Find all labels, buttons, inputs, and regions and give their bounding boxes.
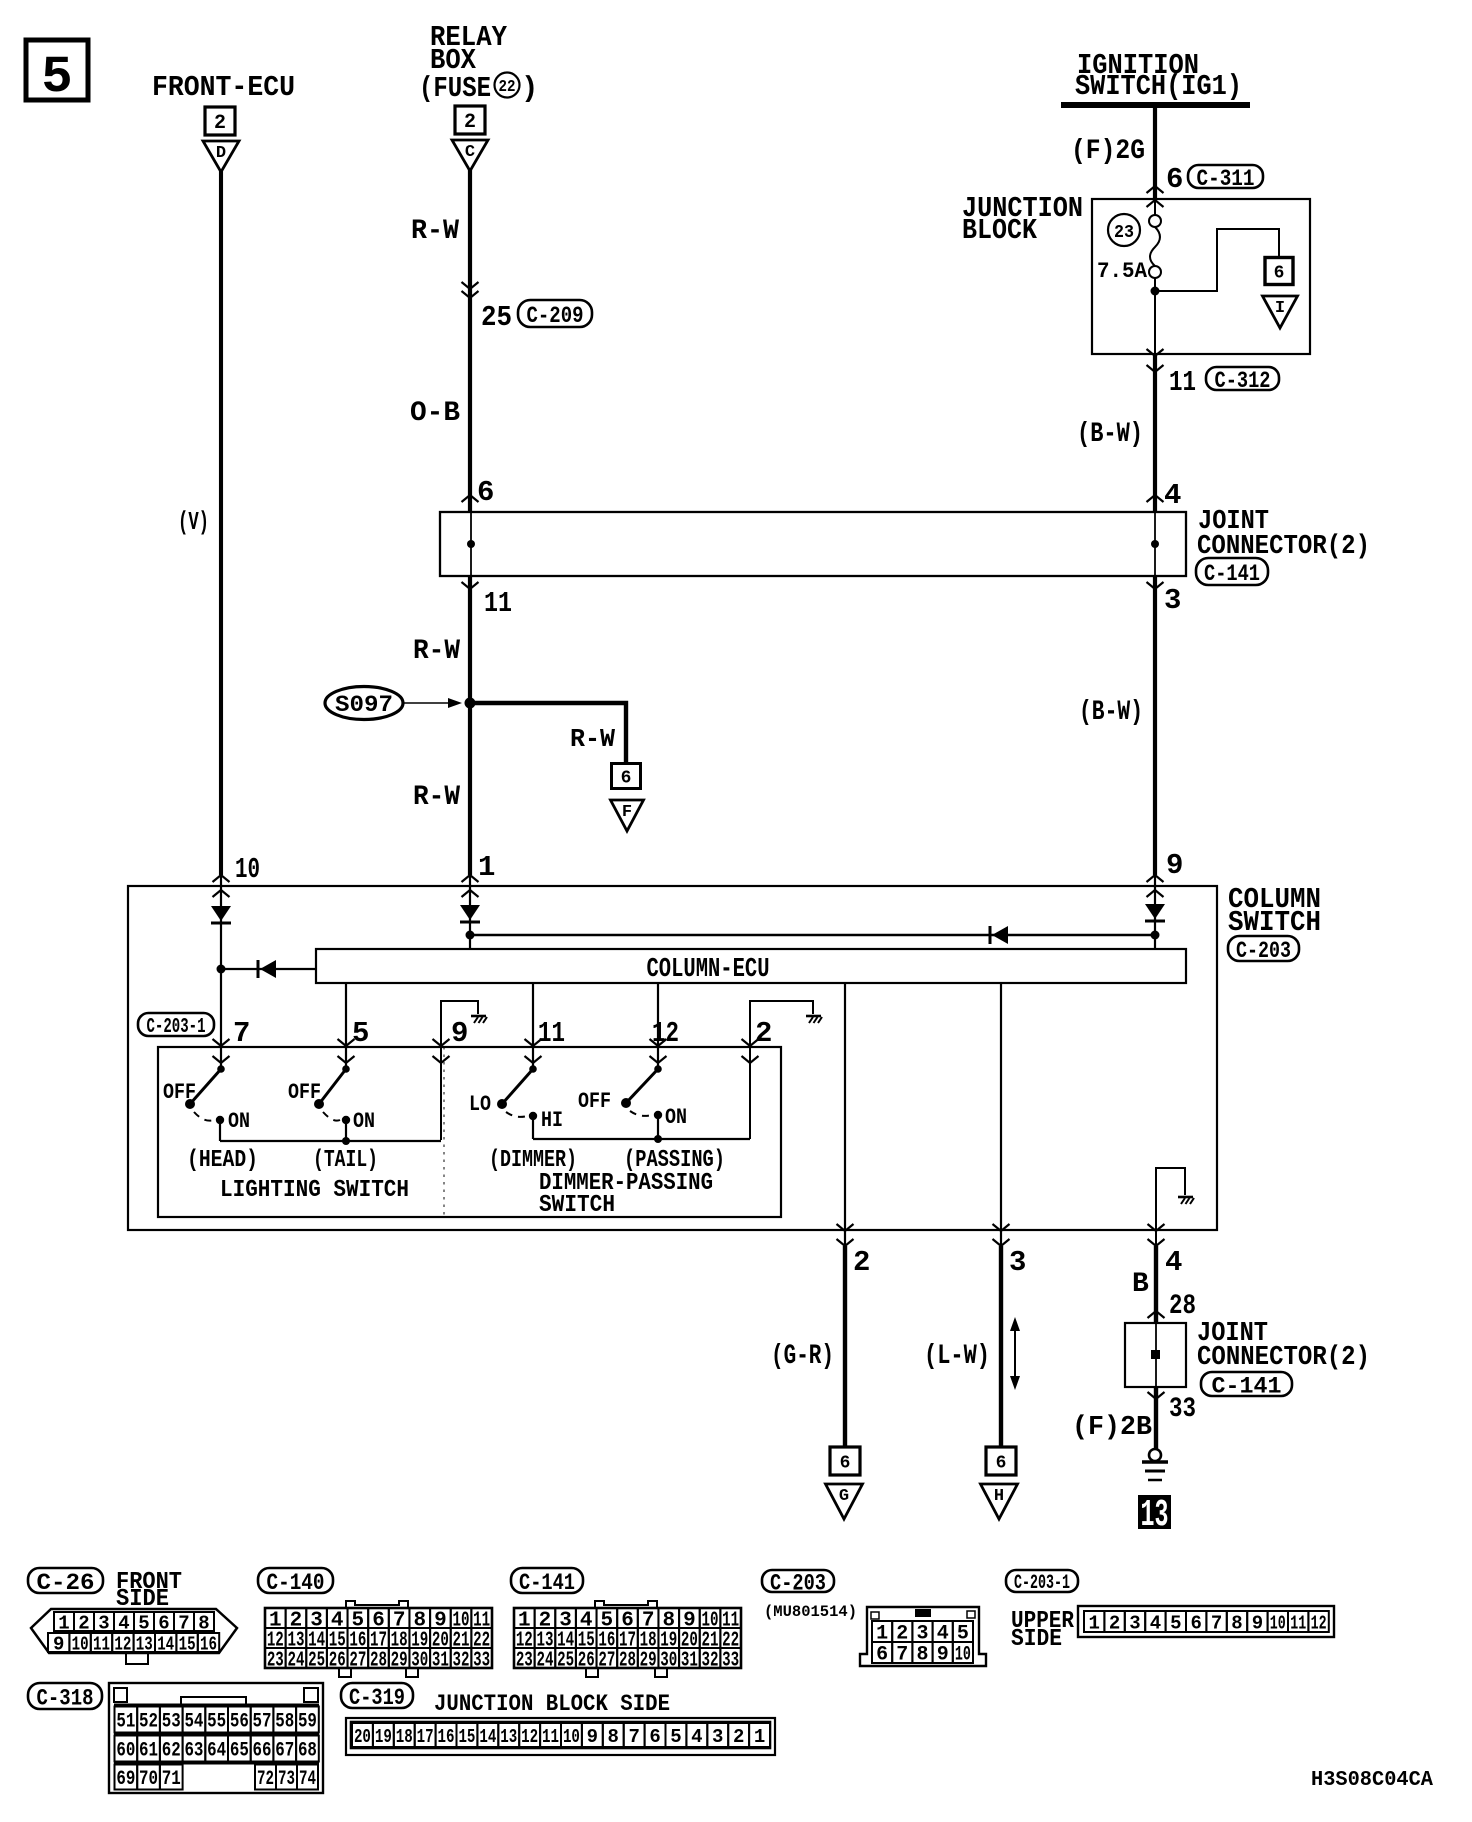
svg-text:C-141: C-141 xyxy=(519,1570,575,1596)
destination triangle D xyxy=(203,141,239,172)
svg-text:OFF: OFF xyxy=(288,1080,321,1105)
destination triangle H xyxy=(981,1484,1018,1519)
svg-text:11: 11 xyxy=(538,1017,565,1050)
svg-text:51: 51 xyxy=(116,1711,135,1734)
svg-text:6: 6 xyxy=(158,1612,169,1634)
connector label C-319 xyxy=(341,1683,413,1708)
svg-text:8: 8 xyxy=(198,1612,209,1634)
crossing arrows inner switch box xyxy=(213,1039,230,1046)
connector label C-141 lower xyxy=(1201,1372,1292,1396)
svg-text:8: 8 xyxy=(1231,1612,1242,1634)
wire branch R-W to triangle F xyxy=(470,703,626,764)
connector crossing arrows pin 9 xyxy=(1147,875,1164,882)
svg-text:H: H xyxy=(994,1487,1004,1506)
svg-text:18: 18 xyxy=(396,1726,413,1748)
svg-text:69: 69 xyxy=(116,1768,135,1791)
svg-text:O-B: O-B xyxy=(410,398,460,429)
connector crossing arrows C-311 xyxy=(1147,186,1164,193)
svg-text:2: 2 xyxy=(755,1017,772,1050)
svg-text:68: 68 xyxy=(298,1740,317,1763)
wire B output 4 xyxy=(1154,1246,1158,1323)
svg-text:F: F xyxy=(622,803,632,822)
junction dot right in joint connector xyxy=(1151,540,1159,548)
svg-text:33: 33 xyxy=(1169,1394,1196,1425)
svg-text:8: 8 xyxy=(916,1644,928,1667)
svg-text:10: 10 xyxy=(72,1633,89,1655)
svg-text:25: 25 xyxy=(481,301,512,334)
wire through joint connector right xyxy=(1154,512,1156,576)
svg-text:8: 8 xyxy=(608,1726,619,1748)
connector C-203 pinout xyxy=(860,1607,986,1666)
svg-text:I: I xyxy=(1275,299,1285,318)
connector C-140 pinout xyxy=(265,1608,492,1668)
svg-text:(TAIL): (TAIL) xyxy=(313,1147,378,1174)
destination triangle C xyxy=(452,140,488,171)
svg-text:10: 10 xyxy=(563,1726,580,1748)
joint connector (2) C-141 box xyxy=(440,512,1186,576)
svg-text:2: 2 xyxy=(853,1246,870,1279)
svg-text:2: 2 xyxy=(733,1726,744,1748)
connector C-26 pinout xyxy=(31,1609,237,1653)
connector C-209 crossing arrows xyxy=(462,282,479,289)
wire (L-W) output 3 xyxy=(999,1246,1003,1447)
svg-text:10: 10 xyxy=(1270,1612,1286,1634)
wire ECU pin 11 xyxy=(532,983,534,1069)
svg-text:6: 6 xyxy=(876,1644,888,1667)
COLUMN-ECU box xyxy=(316,949,1186,983)
svg-text:11: 11 xyxy=(1290,1612,1306,1634)
svg-text:C-141: C-141 xyxy=(1212,1373,1282,1399)
svg-text:62: 62 xyxy=(162,1740,181,1763)
svg-text:CONNECTOR(2): CONNECTOR(2) xyxy=(1197,1343,1370,1373)
svg-text:C-203: C-203 xyxy=(770,1570,826,1596)
svg-text:H3S08C04CA: H3S08C04CA xyxy=(1311,1769,1433,1792)
switch contact (top) at 221 xyxy=(217,1065,225,1073)
svg-text:16: 16 xyxy=(200,1633,217,1655)
svg-text:74: 74 xyxy=(299,1768,316,1791)
svg-text:3: 3 xyxy=(712,1726,723,1748)
svg-text:C-203: C-203 xyxy=(1236,938,1291,964)
svg-text:OFF: OFF xyxy=(163,1080,196,1105)
svg-text:67: 67 xyxy=(275,1740,294,1763)
junction node left xyxy=(217,965,226,974)
svg-text:C-209: C-209 xyxy=(527,303,584,329)
junction node S097 on wire C xyxy=(465,698,476,709)
svg-text:24: 24 xyxy=(536,1650,553,1673)
connector box 6 (branch I) xyxy=(1265,258,1293,285)
svg-text:5: 5 xyxy=(138,1612,149,1634)
diode D5 (pin 9) xyxy=(1145,904,1165,919)
svg-text:4: 4 xyxy=(118,1612,129,1634)
svg-text:ON: ON xyxy=(228,1109,250,1134)
earth ground symbol xyxy=(1149,1449,1161,1461)
svg-text:52: 52 xyxy=(139,1711,158,1734)
svg-text:BLOCK: BLOCK xyxy=(962,214,1038,247)
joint connector (2) C-141 lower box xyxy=(1125,1323,1186,1387)
chassis ground (pin 2) xyxy=(806,1015,821,1018)
connector label C-141 xyxy=(1196,558,1268,585)
connector label C-141 bottom xyxy=(511,1568,583,1593)
svg-text:15: 15 xyxy=(179,1633,196,1655)
fuse symbol 7.5A xyxy=(1149,215,1161,227)
svg-text:12: 12 xyxy=(521,1726,538,1748)
svg-text:C-203-1: C-203-1 xyxy=(147,1016,206,1039)
wire lighting switch common bus xyxy=(220,1140,441,1142)
wire ECU pin 5 xyxy=(345,983,347,1069)
svg-text:JUNCTION BLOCK SIDE: JUNCTION BLOCK SIDE xyxy=(434,1691,670,1717)
connector label C-312 xyxy=(1206,367,1279,390)
svg-text:23: 23 xyxy=(1114,223,1134,243)
wire pin 9 internal with diode xyxy=(1154,875,1156,949)
junction dot left in joint connector xyxy=(467,540,475,548)
ground reference box 13 xyxy=(1138,1495,1171,1529)
svg-text:3: 3 xyxy=(1164,584,1181,617)
svg-text:4: 4 xyxy=(1164,479,1181,512)
connector label C-203 xyxy=(1228,936,1299,961)
wire ECU pin 3 output xyxy=(1000,983,1002,1246)
destination triangle G xyxy=(826,1484,863,1519)
arrow from S097 to junction xyxy=(404,702,452,704)
svg-text:3: 3 xyxy=(1129,1612,1140,1634)
svg-text:(L-W): (L-W) xyxy=(924,1341,990,1372)
svg-text:(B-W): (B-W) xyxy=(1077,419,1143,450)
svg-text:G: G xyxy=(839,1487,849,1506)
svg-text:2: 2 xyxy=(214,112,226,135)
svg-text:5: 5 xyxy=(1170,1612,1181,1634)
svg-text:65: 65 xyxy=(230,1740,249,1763)
switch throw dashed xyxy=(630,1111,652,1116)
connector C-203-1 pinout xyxy=(1078,1606,1334,1637)
svg-text:9: 9 xyxy=(451,1017,468,1050)
svg-text:9: 9 xyxy=(937,1644,949,1667)
connector box 6 (H) xyxy=(986,1447,1016,1475)
svg-text:31: 31 xyxy=(681,1650,698,1673)
svg-text:C-312: C-312 xyxy=(1215,368,1271,394)
svg-text:4: 4 xyxy=(691,1726,702,1748)
svg-text:66: 66 xyxy=(253,1740,272,1763)
connector box 2 (FRONT-ECU) xyxy=(205,107,235,135)
svg-text:28: 28 xyxy=(370,1650,387,1673)
svg-text:14: 14 xyxy=(157,1633,174,1655)
svg-text:71: 71 xyxy=(162,1768,181,1791)
svg-text:6: 6 xyxy=(1166,163,1183,196)
svg-text:C-26: C-26 xyxy=(37,1570,95,1596)
svg-text:S097: S097 xyxy=(335,692,393,718)
svg-text:(F)2G: (F)2G xyxy=(1071,136,1145,167)
junction node PASSING-ON xyxy=(654,1135,662,1143)
svg-text:C-140: C-140 xyxy=(267,1570,325,1596)
svg-text:23: 23 xyxy=(516,1650,533,1673)
svg-text:57: 57 xyxy=(253,1711,272,1734)
svg-text:(HEAD): (HEAD) xyxy=(187,1147,258,1174)
svg-text:FRONT-ECU: FRONT-ECU xyxy=(152,71,295,104)
svg-text:25: 25 xyxy=(557,1650,574,1673)
svg-text:13: 13 xyxy=(1141,1494,1169,1537)
svg-text:55: 55 xyxy=(207,1711,226,1734)
svg-text:61: 61 xyxy=(139,1740,158,1763)
svg-text:54: 54 xyxy=(184,1711,203,1734)
connector box 6 (G) xyxy=(830,1447,860,1475)
connector C-141 pinout xyxy=(514,1608,741,1668)
wire to earth ground xyxy=(1154,1387,1158,1449)
svg-text:4: 4 xyxy=(1165,1246,1182,1279)
svg-text:59: 59 xyxy=(298,1711,317,1734)
svg-text:1: 1 xyxy=(478,851,495,884)
svg-text:23: 23 xyxy=(267,1650,284,1673)
svg-text:B: B xyxy=(1132,1269,1149,1300)
svg-text:6: 6 xyxy=(477,476,494,509)
svg-text:64: 64 xyxy=(207,1740,226,1763)
wire C exit - pin 11 xyxy=(462,582,479,589)
svg-text:C-319: C-319 xyxy=(349,1685,405,1711)
connector label C-318 xyxy=(28,1683,102,1709)
sheet number box 5 xyxy=(26,40,88,100)
switch assembly box xyxy=(158,1047,781,1217)
wire pin 7 to lighting switch xyxy=(220,969,222,1069)
diode D1 (pin 10) xyxy=(211,906,231,921)
svg-text:C-318: C-318 xyxy=(37,1685,94,1711)
wire (G-R) output 2 xyxy=(843,1246,847,1447)
ignition switch bus bar xyxy=(1061,102,1250,108)
svg-text:): ) xyxy=(521,72,538,105)
junction block box xyxy=(1092,199,1310,354)
pin label 33 xyxy=(1148,1392,1165,1399)
svg-text:7: 7 xyxy=(628,1726,639,1748)
svg-text:28: 28 xyxy=(619,1650,636,1673)
svg-text:(FUSE: (FUSE xyxy=(419,72,491,105)
svg-text:20: 20 xyxy=(354,1726,371,1748)
svg-text:7: 7 xyxy=(178,1612,189,1634)
svg-text:11: 11 xyxy=(1169,366,1196,399)
svg-text:SWITCH: SWITCH xyxy=(1228,906,1321,939)
junction node in junction block xyxy=(1151,287,1160,296)
connector box 6 (branch F) xyxy=(612,764,641,789)
svg-text:7: 7 xyxy=(233,1017,250,1050)
chassis ground (pin 4) xyxy=(1178,1196,1193,1199)
svg-text:C: C xyxy=(465,143,475,162)
svg-text:C-203-1: C-203-1 xyxy=(1014,1572,1070,1595)
svg-text:D: D xyxy=(216,144,226,163)
svg-text:COLUMN-ECU: COLUMN-ECU xyxy=(647,955,770,985)
destination triangle F xyxy=(611,800,644,831)
connector crossing arrows pin 1 xyxy=(462,875,479,882)
svg-text:6: 6 xyxy=(649,1726,660,1748)
svg-text:3: 3 xyxy=(1009,1246,1026,1279)
svg-text:1: 1 xyxy=(754,1726,765,1748)
svg-text:R-W: R-W xyxy=(411,216,459,247)
svg-text:R-W: R-W xyxy=(570,724,615,754)
svg-text:73: 73 xyxy=(278,1768,295,1791)
connector label C-209 xyxy=(518,300,592,327)
svg-text:24: 24 xyxy=(287,1650,304,1673)
svg-text:2: 2 xyxy=(464,111,476,134)
svg-text:C-311: C-311 xyxy=(1197,166,1255,192)
svg-text:25: 25 xyxy=(308,1650,325,1673)
svg-text:7: 7 xyxy=(1211,1612,1222,1634)
svg-text:(MU801514): (MU801514) xyxy=(764,1603,857,1621)
svg-text:15: 15 xyxy=(458,1726,475,1748)
svg-text:1: 1 xyxy=(58,1612,69,1634)
connector label C-26 xyxy=(28,1568,103,1593)
svg-text:R-W: R-W xyxy=(413,782,460,813)
connector label C-203-1 bottom xyxy=(1006,1570,1078,1592)
svg-text:19: 19 xyxy=(375,1726,392,1748)
svg-text:ON: ON xyxy=(665,1105,687,1130)
connector label C-140 xyxy=(258,1568,333,1593)
connector label C-311 xyxy=(1188,165,1263,188)
svg-text:SIDE: SIDE xyxy=(1011,1626,1062,1653)
connector label C-203 bottom xyxy=(762,1570,834,1592)
column switch C-203 box xyxy=(128,886,1217,1230)
svg-text:LIGHTING SWITCH: LIGHTING SWITCH xyxy=(220,1177,409,1204)
svg-text:11: 11 xyxy=(484,587,512,620)
wire through joint connector left xyxy=(470,512,472,576)
svg-text:2: 2 xyxy=(78,1612,89,1634)
fuse 23 circled number xyxy=(1108,214,1140,246)
ground bracket pin 2 (C-203-1) xyxy=(750,1001,813,1139)
svg-text:9: 9 xyxy=(53,1633,64,1655)
wire D (V) FRONT-ECU to COLUMN SWITCH pin 10 xyxy=(219,171,223,875)
switch lever xyxy=(190,1069,221,1104)
svg-text:10: 10 xyxy=(235,853,260,886)
diode D3 (pin 1) xyxy=(460,905,480,920)
switch lever xyxy=(502,1069,533,1104)
wire pin 1 internal with diode xyxy=(469,875,471,949)
svg-text:5: 5 xyxy=(352,1017,369,1050)
svg-text:6: 6 xyxy=(840,1453,851,1473)
wire C R-W relay box to joint connector xyxy=(468,169,472,512)
svg-text:27: 27 xyxy=(598,1650,615,1673)
svg-text:HI: HI xyxy=(541,1108,563,1133)
junction dot lower joint connector xyxy=(1151,1350,1160,1359)
destination triangle I xyxy=(1263,296,1298,328)
svg-text:26: 26 xyxy=(329,1650,346,1673)
crossing arrows outputs 2 3 4 xyxy=(837,1224,854,1231)
svg-text:30: 30 xyxy=(660,1650,677,1673)
svg-text:14: 14 xyxy=(479,1726,496,1748)
switch contact (top) at 533 xyxy=(529,1065,537,1073)
svg-text:11: 11 xyxy=(542,1726,559,1748)
svg-text:13: 13 xyxy=(500,1726,517,1748)
svg-text:63: 63 xyxy=(184,1740,203,1763)
svg-text:3: 3 xyxy=(98,1612,109,1634)
svg-text:ON: ON xyxy=(353,1109,375,1134)
svg-text:16: 16 xyxy=(438,1726,455,1748)
svg-text:6: 6 xyxy=(1274,263,1285,283)
separator lighting/dimmer xyxy=(443,1047,445,1217)
connector crossing arrows C-312 xyxy=(1147,349,1164,356)
connector crossing arrows pin 10 xyxy=(213,875,230,882)
junction node right xyxy=(1151,931,1160,940)
svg-text:10: 10 xyxy=(955,1644,971,1667)
svg-text:OFF: OFF xyxy=(578,1089,611,1114)
chassis ground (pin 9) xyxy=(471,1015,486,1018)
ground bracket pin 9 xyxy=(441,1001,478,1140)
wire ECU pin 2 output xyxy=(844,983,846,1246)
svg-text:6: 6 xyxy=(996,1453,1007,1473)
svg-text:12: 12 xyxy=(1311,1612,1327,1634)
svg-text:7: 7 xyxy=(896,1644,908,1667)
svg-text:11: 11 xyxy=(93,1633,110,1655)
svg-text:(G-R): (G-R) xyxy=(771,1341,834,1372)
switch lever xyxy=(626,1069,658,1103)
switch throw dashed xyxy=(323,1112,340,1121)
svg-text:28: 28 xyxy=(1169,1291,1196,1322)
splice S097 xyxy=(325,687,403,720)
svg-text:6: 6 xyxy=(621,768,632,788)
connector C-318 pinout xyxy=(109,1683,323,1793)
svg-text:SWITCH: SWITCH xyxy=(539,1192,615,1219)
svg-text:6: 6 xyxy=(1190,1612,1201,1634)
connector label C-203-1 xyxy=(138,1013,214,1036)
svg-text:31: 31 xyxy=(432,1650,449,1673)
svg-text:5: 5 xyxy=(670,1726,681,1748)
svg-text:70: 70 xyxy=(139,1768,158,1791)
switch contact (top) at 658 xyxy=(654,1065,662,1073)
svg-text:9: 9 xyxy=(587,1726,598,1748)
two-way arrow xyxy=(1014,1326,1016,1381)
junction node TAIL-ON xyxy=(342,1137,350,1145)
svg-text:17: 17 xyxy=(417,1726,434,1748)
svg-text:60: 60 xyxy=(116,1740,135,1763)
svg-text:32: 32 xyxy=(702,1650,719,1673)
wire fuse to junction dot xyxy=(1154,278,1156,354)
wire ECU pin 12 xyxy=(657,983,659,1069)
wire branch to ECU with diode D2 xyxy=(221,968,316,970)
svg-text:33: 33 xyxy=(473,1650,490,1673)
svg-text:R-W: R-W xyxy=(413,636,460,667)
connector C-319 pinout xyxy=(346,1718,775,1755)
cross wire with diode D4 xyxy=(470,934,1155,937)
svg-text:5: 5 xyxy=(41,48,72,107)
wire exit pin 3 xyxy=(1147,582,1164,589)
svg-text:1: 1 xyxy=(1088,1612,1099,1634)
svg-text:7.5A: 7.5A xyxy=(1097,259,1148,284)
svg-text:(B-W): (B-W) xyxy=(1079,697,1143,728)
ground bracket pin 4 xyxy=(1156,1168,1185,1246)
svg-text:32: 32 xyxy=(453,1650,470,1673)
switch contact (top) at 346 xyxy=(342,1065,350,1073)
svg-text:9: 9 xyxy=(1166,849,1183,882)
junction node mid xyxy=(466,931,475,940)
wire dimmer-passing common bus xyxy=(533,1138,750,1140)
svg-text:30: 30 xyxy=(411,1650,428,1673)
svg-text:4: 4 xyxy=(1150,1612,1161,1634)
connector box 2 (RELAY BOX) xyxy=(455,106,485,134)
svg-text:LO: LO xyxy=(469,1092,491,1117)
switch throw dashed xyxy=(194,1112,214,1121)
svg-text:58: 58 xyxy=(275,1711,294,1734)
switch throw dashed xyxy=(506,1112,527,1117)
svg-text:33: 33 xyxy=(722,1650,739,1673)
wire pin10 internal with diode xyxy=(220,875,222,969)
svg-text:SWITCH(IG1): SWITCH(IG1) xyxy=(1075,70,1242,103)
wire ignition switch to junction block xyxy=(1153,105,1157,199)
svg-text:(V): (V) xyxy=(178,507,209,537)
svg-text:72: 72 xyxy=(257,1768,274,1791)
wire into junction block xyxy=(1154,199,1156,216)
svg-text:(F)2B: (F)2B xyxy=(1072,1413,1152,1443)
svg-text:9: 9 xyxy=(1252,1612,1263,1634)
svg-text:C-141: C-141 xyxy=(1204,561,1260,587)
wire (B-W) junction block to joint connector xyxy=(1153,354,1157,512)
svg-text:2: 2 xyxy=(1109,1612,1120,1634)
svg-text:56: 56 xyxy=(230,1711,249,1734)
svg-text:53: 53 xyxy=(162,1711,181,1734)
switch lever xyxy=(319,1069,346,1104)
wire branch to triangle I xyxy=(1155,229,1279,291)
svg-text:22: 22 xyxy=(499,78,516,97)
